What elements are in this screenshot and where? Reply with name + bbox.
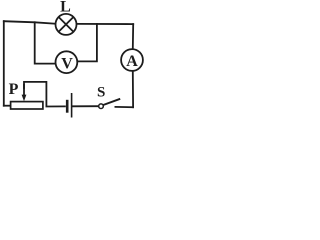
svg-text:V: V — [61, 55, 73, 72]
rheostat wiper arrow — [22, 84, 27, 101]
wire voltmeter left branch — [35, 22, 56, 63]
battery cell positive plate (long) — [71, 93, 73, 118]
wire left vertical — [3, 21, 5, 106]
switch S pivot — [99, 104, 104, 109]
wire voltmeter right branch — [78, 24, 97, 62]
ammeter A — [121, 49, 143, 71]
svg-text:P: P — [9, 81, 19, 98]
svg-text:S: S — [97, 85, 105, 101]
rheostat P box — [11, 102, 43, 109]
wire right vertical upper (to ammeter) — [132, 24, 134, 48]
wire battery to switch — [72, 105, 98, 107]
svg-text:L: L — [60, 0, 71, 16]
wire bottom-left to rheostat — [4, 105, 11, 107]
switch S lever (open) — [103, 99, 120, 105]
wire top-right segment — [77, 23, 133, 25]
wire bottom-right to switch contact — [115, 106, 133, 108]
wire rheostat wiper branch — [24, 82, 65, 107]
battery cell negative plate (short) — [66, 100, 69, 113]
wire right vertical lower (from ammeter) — [132, 72, 134, 108]
voltmeter V — [56, 51, 78, 73]
wire top-left segment — [4, 21, 55, 24]
svg-text:A: A — [126, 53, 138, 70]
lamp L — [56, 14, 77, 35]
